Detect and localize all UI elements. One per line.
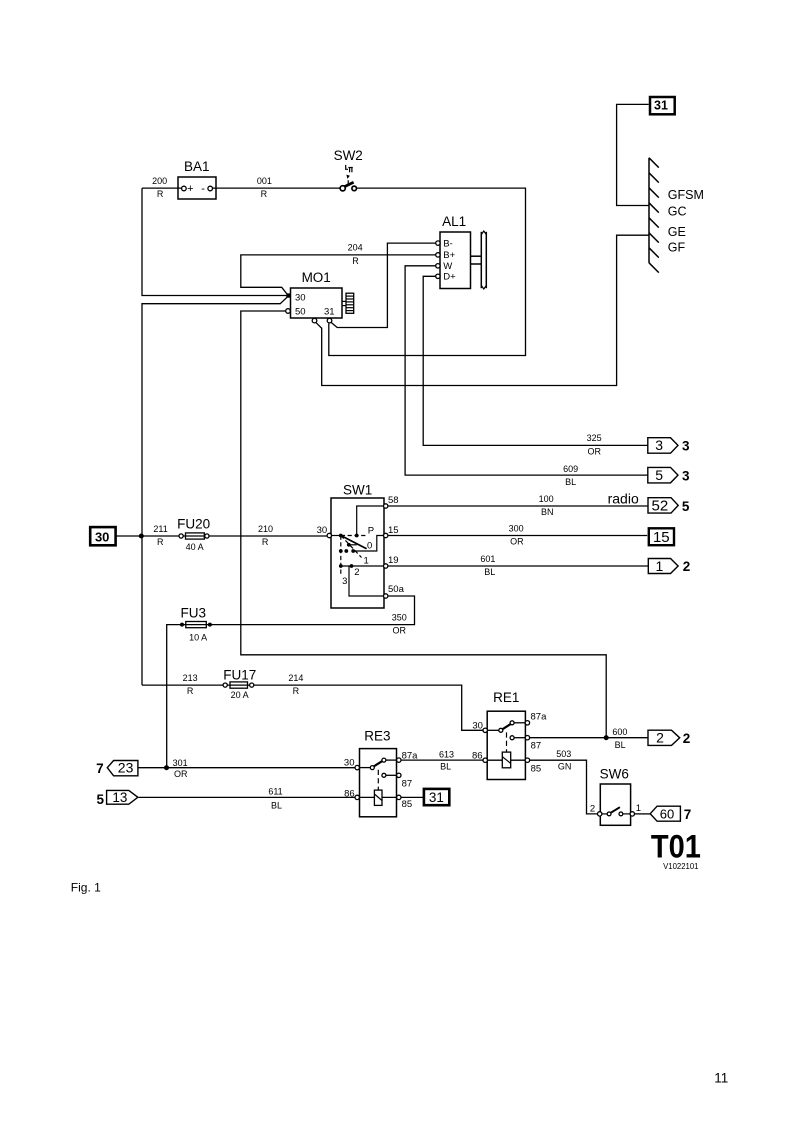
svg-text:OR: OR — [393, 626, 407, 636]
svg-text:30: 30 — [295, 293, 306, 304]
svg-text:Fig. 1: Fig. 1 — [71, 881, 101, 895]
svg-text:7: 7 — [684, 807, 692, 822]
svg-text:B+: B+ — [443, 250, 455, 261]
svg-text:87a: 87a — [531, 712, 548, 723]
svg-text:211: 211 — [153, 524, 167, 534]
svg-text:BA1: BA1 — [184, 159, 210, 174]
svg-text:W: W — [443, 261, 452, 272]
svg-text:R: R — [261, 189, 268, 199]
svg-text:30: 30 — [344, 757, 355, 768]
svg-text:FU17: FU17 — [223, 667, 256, 682]
svg-text:OR: OR — [174, 769, 188, 779]
svg-text:10 A: 10 A — [189, 632, 207, 642]
svg-text:30: 30 — [95, 529, 109, 544]
svg-text:7: 7 — [96, 761, 104, 776]
svg-text:87: 87 — [402, 779, 413, 790]
svg-text:50: 50 — [295, 307, 306, 318]
svg-text:-: - — [201, 183, 205, 195]
svg-text:2: 2 — [683, 559, 691, 574]
svg-text:5: 5 — [682, 499, 690, 514]
svg-text:350: 350 — [392, 612, 407, 622]
svg-text:85: 85 — [531, 763, 542, 774]
svg-text:SW1: SW1 — [343, 482, 372, 497]
svg-text:T01: T01 — [651, 829, 701, 865]
svg-text:SW6: SW6 — [600, 767, 629, 782]
svg-text:AL1: AL1 — [442, 214, 466, 229]
svg-text:20 A: 20 A — [231, 690, 249, 700]
svg-text:31: 31 — [324, 307, 335, 318]
svg-text:P: P — [368, 526, 374, 537]
svg-text:100: 100 — [539, 494, 554, 504]
svg-text:BL: BL — [565, 477, 576, 487]
svg-text:50a: 50a — [388, 584, 405, 595]
svg-text:13: 13 — [112, 790, 127, 805]
svg-text:GFSM: GFSM — [668, 188, 704, 202]
svg-text:210: 210 — [258, 524, 273, 534]
svg-text:58: 58 — [388, 495, 399, 506]
svg-text:600: 600 — [612, 727, 627, 737]
svg-text:609: 609 — [563, 464, 578, 474]
svg-text:001: 001 — [257, 176, 272, 186]
svg-text:MO1: MO1 — [302, 270, 331, 285]
svg-text:5: 5 — [97, 792, 105, 807]
svg-text:D+: D+ — [443, 272, 456, 283]
svg-text:40 A: 40 A — [186, 542, 204, 552]
svg-text:OR: OR — [510, 537, 524, 547]
svg-text:15: 15 — [653, 529, 670, 546]
svg-text:31: 31 — [654, 98, 668, 112]
svg-text:213: 213 — [183, 673, 198, 683]
svg-text:RE3: RE3 — [364, 729, 390, 744]
svg-text:2: 2 — [656, 730, 664, 746]
svg-text:200: 200 — [152, 176, 167, 186]
svg-text:30: 30 — [317, 525, 328, 536]
svg-text:+: + — [187, 183, 193, 195]
svg-text:23: 23 — [118, 760, 134, 776]
svg-text:BN: BN — [541, 507, 554, 517]
svg-text:86: 86 — [472, 750, 483, 761]
svg-text:GE: GE — [668, 225, 686, 239]
svg-text:RE1: RE1 — [493, 690, 519, 705]
svg-text:GN: GN — [558, 762, 572, 772]
svg-text:601: 601 — [480, 554, 495, 564]
svg-text:19: 19 — [388, 555, 399, 566]
svg-text:2: 2 — [590, 804, 595, 815]
svg-text:R: R — [157, 189, 164, 199]
svg-text:GF: GF — [668, 240, 686, 254]
svg-text:BL: BL — [271, 800, 282, 810]
svg-text:87a: 87a — [402, 751, 419, 762]
svg-text:0: 0 — [367, 541, 372, 552]
svg-text:30: 30 — [472, 721, 483, 732]
svg-text:GC: GC — [668, 205, 687, 219]
svg-text:15: 15 — [388, 525, 399, 536]
svg-text:OR: OR — [588, 446, 602, 456]
svg-text:325: 325 — [587, 433, 602, 443]
svg-text:87: 87 — [531, 740, 542, 751]
svg-text:1: 1 — [363, 555, 368, 566]
svg-text:BL: BL — [615, 740, 626, 750]
svg-text:R: R — [352, 256, 359, 266]
svg-text:2: 2 — [683, 731, 691, 746]
svg-text:BL: BL — [484, 567, 495, 577]
svg-text:611: 611 — [268, 787, 282, 797]
svg-text:204: 204 — [348, 243, 363, 253]
svg-text:1: 1 — [636, 803, 641, 814]
svg-text:60: 60 — [660, 807, 674, 822]
svg-text:R: R — [157, 537, 164, 547]
svg-text:2: 2 — [354, 567, 359, 578]
svg-text:86: 86 — [344, 788, 355, 799]
svg-text:B-: B- — [443, 238, 453, 249]
svg-text:214: 214 — [288, 673, 303, 683]
svg-text:52: 52 — [652, 498, 669, 515]
svg-text:BL: BL — [440, 762, 451, 772]
svg-text:R: R — [262, 537, 269, 547]
svg-text:300: 300 — [509, 523, 524, 533]
svg-text:SW2: SW2 — [334, 148, 363, 163]
svg-text:31: 31 — [429, 790, 444, 805]
svg-text:613: 613 — [439, 749, 454, 759]
svg-text:3: 3 — [682, 469, 690, 484]
svg-text:FU3: FU3 — [181, 605, 207, 620]
svg-text:301: 301 — [173, 758, 188, 768]
svg-text:3: 3 — [655, 437, 663, 453]
svg-text:radio: radio — [608, 491, 639, 507]
svg-text:R: R — [187, 686, 194, 696]
svg-text:5: 5 — [655, 467, 663, 483]
svg-text:FU20: FU20 — [177, 517, 210, 532]
svg-text:V1022101: V1022101 — [663, 861, 699, 871]
svg-text:503: 503 — [556, 749, 571, 759]
svg-text:3: 3 — [342, 576, 347, 587]
svg-text:85: 85 — [402, 799, 413, 810]
svg-text:11: 11 — [714, 1070, 728, 1085]
svg-text:3: 3 — [682, 439, 690, 454]
svg-text:R: R — [293, 686, 300, 696]
svg-text:1: 1 — [656, 558, 664, 574]
